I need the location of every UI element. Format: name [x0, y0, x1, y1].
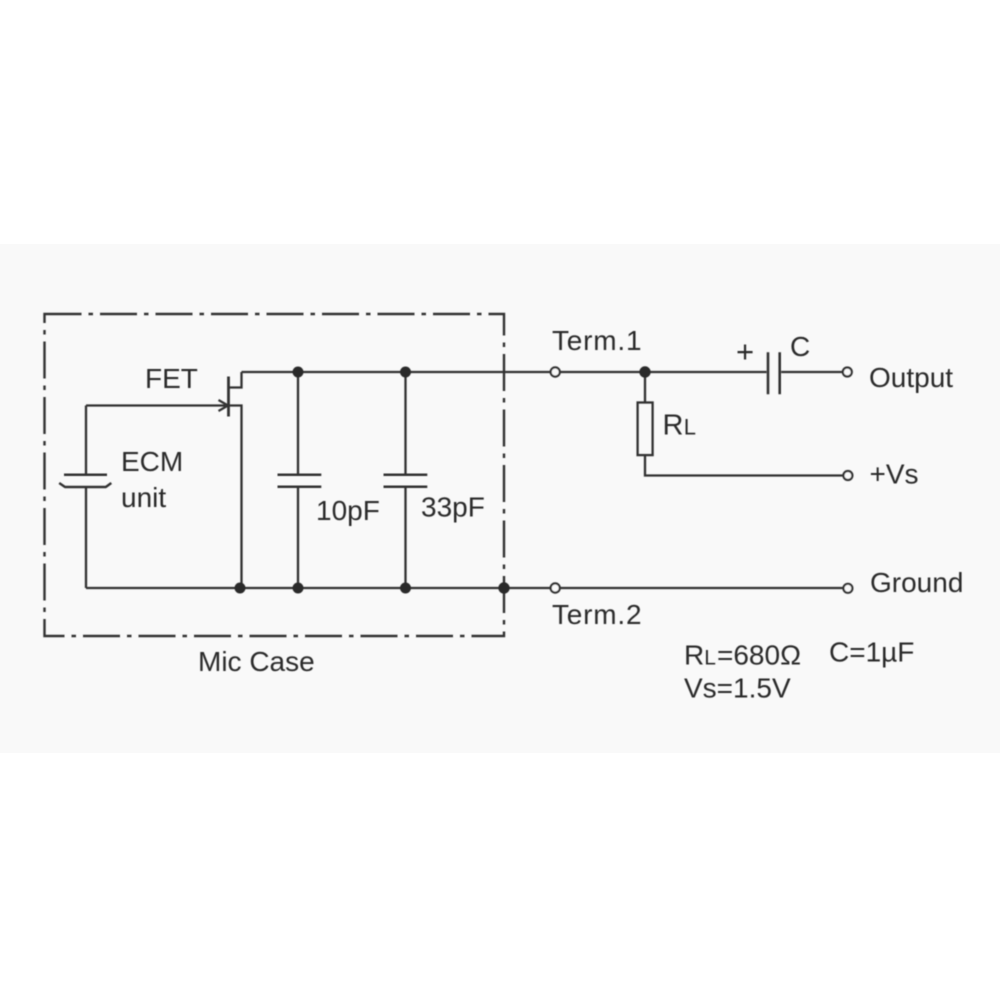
- terminal Ground: [843, 584, 852, 593]
- svg-text:R: R: [684, 640, 704, 671]
- svg-text:=680Ω: =680Ω: [717, 640, 801, 671]
- svg-text:+Vs: +Vs: [870, 459, 919, 490]
- junction node top 10pF: [293, 367, 304, 378]
- svg-text:R: R: [663, 410, 684, 442]
- svg-text:Vs=1.5V: Vs=1.5V: [684, 673, 791, 704]
- junction node top 33pF: [400, 367, 411, 378]
- resistor RL: [644, 372, 646, 403]
- svg-text:Term.1: Term.1: [552, 325, 642, 356]
- svg-text:L: L: [704, 647, 716, 670]
- background band: [0, 244, 1000, 753]
- svg-text:33pF: 33pF: [421, 492, 485, 523]
- wire bottom rail: [86, 587, 844, 589]
- junction node bottom 33pF: [400, 583, 411, 594]
- svg-text:L: L: [684, 415, 696, 440]
- junction node RL tap: [639, 366, 650, 377]
- svg-text:C=1µF: C=1µF: [829, 637, 914, 668]
- junction node bottom 10pF: [293, 583, 304, 594]
- svg-text:Term.2: Term.2: [552, 599, 642, 630]
- capacitor ECM unit: [85, 406, 87, 474]
- wire gate net: [86, 404, 226, 406]
- transistor FET: [227, 377, 230, 417]
- svg-text:unit: unit: [121, 482, 166, 513]
- junction node FET source: [235, 583, 246, 594]
- capacitor 10pF: [297, 372, 299, 474]
- terminal Term.1: [551, 367, 560, 376]
- svg-text:FET: FET: [145, 363, 198, 394]
- capacitor C: [768, 352, 780, 394]
- svg-text:ECM: ECM: [121, 446, 183, 477]
- capacitor 33pF: [404, 372, 406, 474]
- svg-text:+: +: [736, 334, 754, 369]
- svg-text:Ground: Ground: [870, 567, 963, 598]
- svg-text:Output: Output: [869, 362, 953, 393]
- svg-text:10pF: 10pF: [316, 495, 380, 526]
- svg-text:C: C: [790, 331, 810, 362]
- terminal +Vs: [843, 471, 852, 480]
- wire top rail: [242, 371, 844, 373]
- svg-text:Mic Case: Mic Case: [198, 646, 315, 677]
- terminal Term.2: [551, 583, 560, 592]
- mic case enclosure: [45, 314, 505, 636]
- junction node case ground: [498, 582, 509, 593]
- terminal Output: [843, 368, 852, 377]
